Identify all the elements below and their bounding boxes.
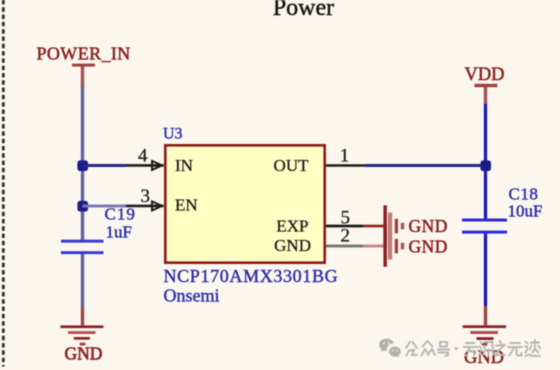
svg-text:Power: Power — [273, 0, 334, 21]
svg-text:GND: GND — [274, 236, 311, 255]
svg-text:Onsemi: Onsemi — [164, 286, 220, 306]
svg-text:2: 2 — [341, 226, 351, 247]
svg-text:EN: EN — [175, 196, 198, 215]
svg-text:10uF: 10uF — [508, 202, 543, 221]
svg-text:GND: GND — [65, 344, 103, 364]
svg-text:VDD: VDD — [464, 65, 504, 85]
svg-text:GND: GND — [409, 237, 448, 257]
svg-text:GND: GND — [409, 216, 448, 236]
svg-text:1: 1 — [340, 146, 350, 167]
svg-text:POWER_IN: POWER_IN — [37, 44, 131, 64]
svg-text:IN: IN — [175, 156, 193, 175]
svg-text:U3: U3 — [163, 126, 183, 143]
svg-text:NCP170AMX3301BG: NCP170AMX3301BG — [164, 266, 339, 286]
svg-text:1uF: 1uF — [106, 223, 132, 242]
svg-text:OUT: OUT — [274, 156, 310, 175]
svg-text:4: 4 — [138, 146, 148, 167]
svg-text:3: 3 — [140, 186, 150, 207]
svg-text:EXP: EXP — [276, 217, 308, 236]
